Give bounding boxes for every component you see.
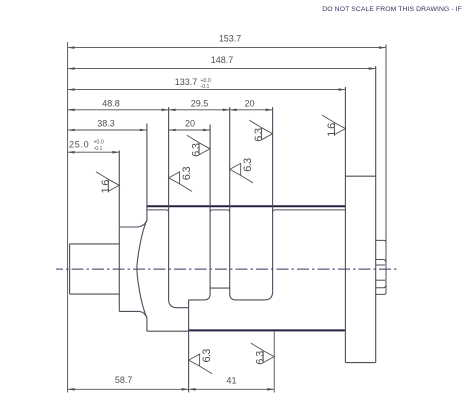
part: inner top surface line segments xyxy=(147,210,346,213)
svg-text:133.7: 133.7 xyxy=(175,77,198,87)
svg-text:1.6: 1.6 xyxy=(326,123,338,137)
part: main body left edge xyxy=(146,124,148,332)
svg-text:48.8: 48.8 xyxy=(102,98,120,108)
svg-text:6.3: 6.3 xyxy=(253,128,265,142)
extension line: 41 right xyxy=(273,332,275,393)
svg-text:29.5: 29.5 xyxy=(191,98,209,108)
svg-text:6.3: 6.3 xyxy=(242,158,254,172)
svg-text:6.3: 6.3 xyxy=(201,349,213,363)
dimension chain 48.8 / 29.5 / 20 xyxy=(68,109,273,111)
svg-text:153.7: 153.7 xyxy=(219,34,242,44)
part: flange xyxy=(345,66,375,363)
svg-text:+0.0: +0.0 xyxy=(201,78,211,84)
surface finish symbol 6.3 (bottom left, left-pointing) xyxy=(189,354,212,374)
surface finish symbol 6.3 (groove2 left, left-pointing) xyxy=(230,163,253,183)
part: stub shaft left end xyxy=(70,244,120,294)
surface finish symbol 6.3 (groove2 right) xyxy=(249,120,272,140)
svg-text:20: 20 xyxy=(185,119,195,129)
svg-text:6.3: 6.3 xyxy=(255,351,267,365)
dimension 148.7 xyxy=(68,68,376,70)
dimension chain 58.7 / 41 xyxy=(68,388,275,390)
svg-text:-0.1: -0.1 xyxy=(201,84,210,90)
part: main body bottom edge thin left xyxy=(147,330,189,332)
svg-text:DO NOT SCALE FROM THIS DRAWING: DO NOT SCALE FROM THIS DRAWING - IF xyxy=(322,6,462,13)
surface finish symbol 6.3 (bottom right) xyxy=(251,343,274,363)
surface finish symbol 6.3 (groove1 left, left-pointing) xyxy=(169,172,192,192)
part: land between grooves xyxy=(210,287,230,289)
surface finish symbol 6.3 (groove1 right) xyxy=(187,135,210,155)
dimension 20 (groove 1) xyxy=(169,129,211,131)
part: groove 1 walls and bottom xyxy=(169,107,211,393)
dimension 25.0 +0.0/-0.1 xyxy=(68,151,120,153)
svg-text:6.3: 6.3 xyxy=(191,143,203,157)
dimension 38.3 xyxy=(68,129,147,131)
part: main body bottom edge (thick) xyxy=(189,329,346,331)
svg-text:38.3: 38.3 xyxy=(97,119,115,129)
centerline xyxy=(56,268,399,270)
svg-text:41: 41 xyxy=(226,376,236,386)
svg-text:25.0: 25.0 xyxy=(69,140,89,150)
extension line: left datum xyxy=(67,42,69,393)
svg-text:-0.1: -0.1 xyxy=(94,146,103,152)
dimension 153.7 xyxy=(68,47,386,49)
svg-text:1.6: 1.6 xyxy=(100,180,112,194)
part: rear spigot xyxy=(376,45,386,295)
svg-text:58.7: 58.7 xyxy=(115,375,133,385)
svg-text:20: 20 xyxy=(244,98,254,108)
dimension 133.7 +0.0/-0.1 xyxy=(68,89,346,91)
svg-text:6.3: 6.3 xyxy=(181,167,193,181)
part: groove 2 walls and bottom xyxy=(230,107,273,300)
surface finish symbol 1.6 (stub end face) xyxy=(96,172,119,192)
svg-text:148.7: 148.7 xyxy=(211,55,234,65)
part: second section with trumpet transition xyxy=(119,151,147,319)
surface finish symbol 1.6 (flange left face) xyxy=(322,115,345,135)
svg-text:+0.0: +0.0 xyxy=(94,140,104,146)
part: main body top edge (thick) xyxy=(147,205,346,207)
